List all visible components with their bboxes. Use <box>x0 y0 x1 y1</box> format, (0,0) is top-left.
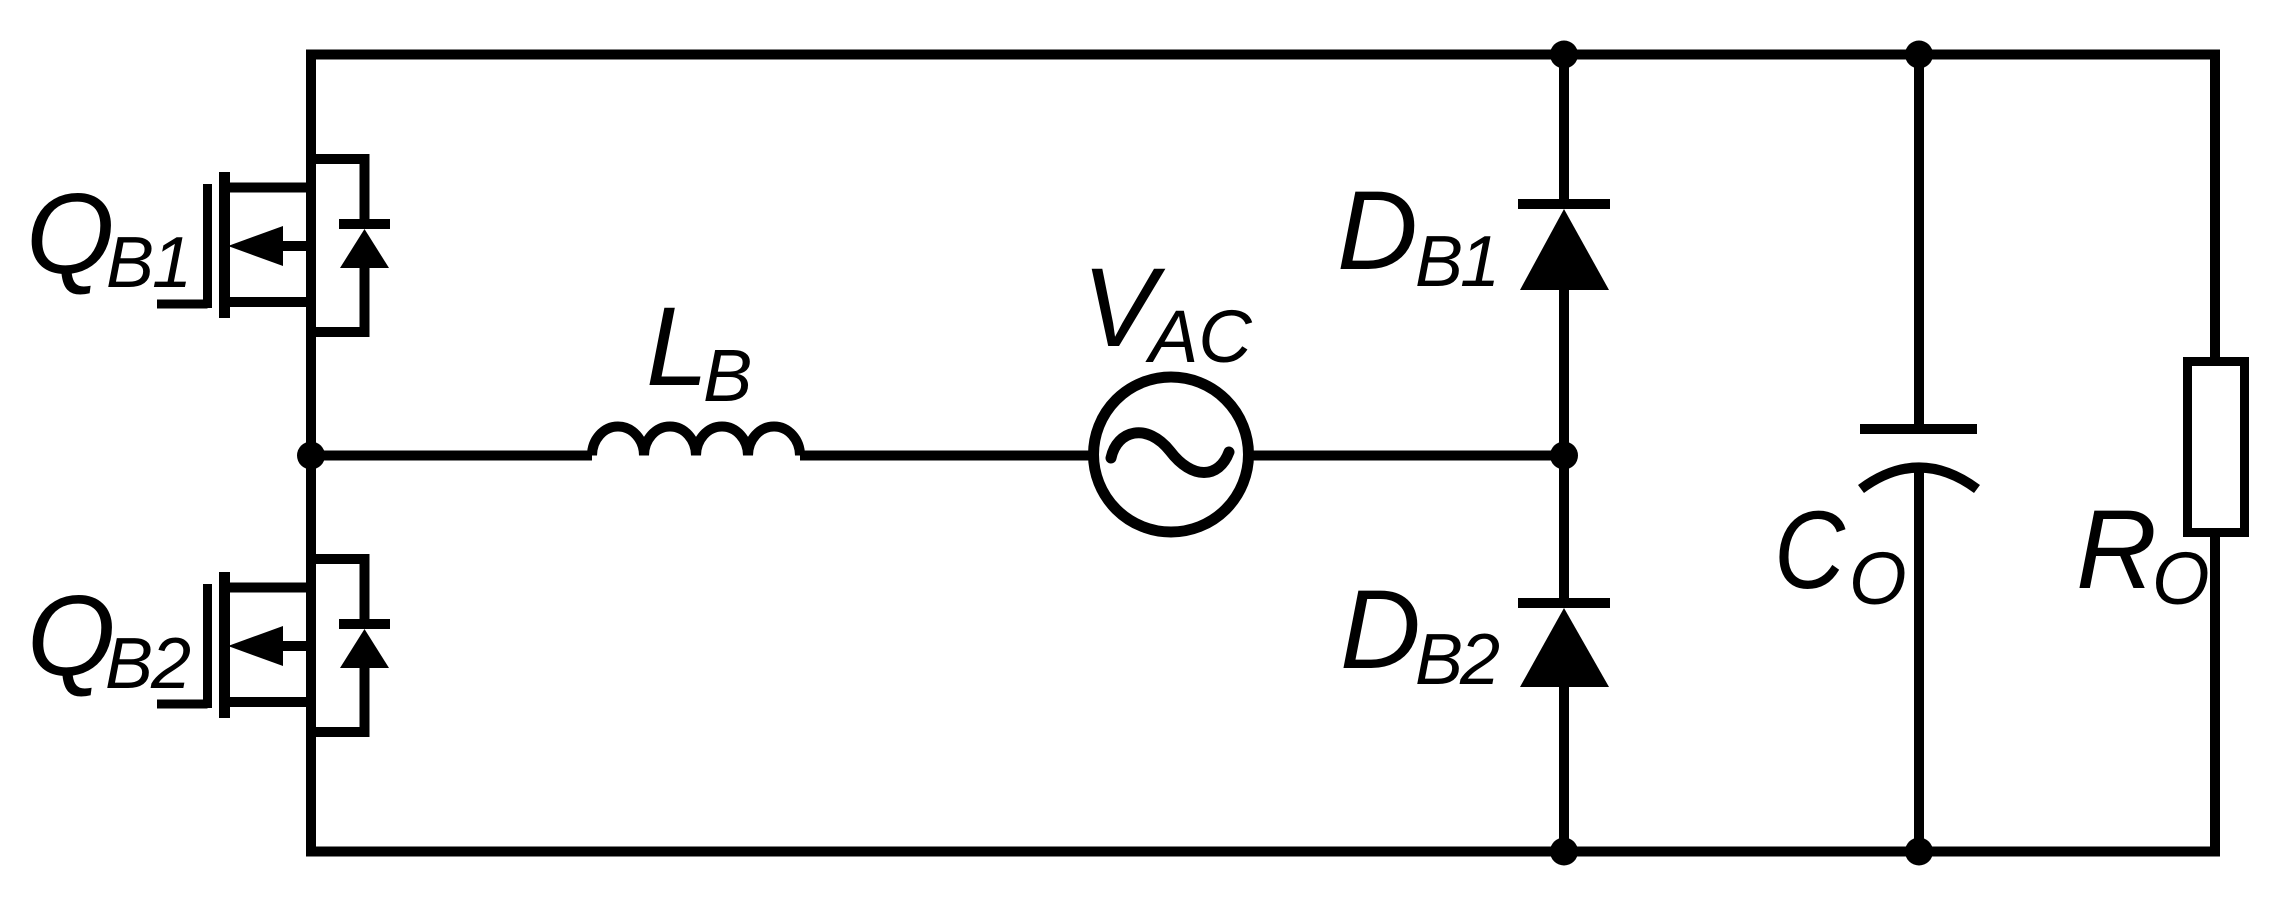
QB2 body diode anode lead <box>360 668 370 737</box>
QB2 body diode cathode bar <box>339 619 390 629</box>
wire: inductor to VAC source <box>800 451 1094 461</box>
CO curved plate <box>1861 468 1977 490</box>
svg-text:Q: Q <box>26 171 115 298</box>
node: top rail / diode leg junction <box>1550 41 1578 69</box>
label QB1 <box>26 171 192 303</box>
svg-text:O: O <box>2152 537 2210 620</box>
node: bottom rail / capacitor junction <box>1905 838 1933 866</box>
node B: diode midpoint junction <box>1550 442 1578 470</box>
svg-text:R: R <box>2076 487 2157 612</box>
wire: top rail <box>306 50 2220 60</box>
QB2 source connection <box>225 697 312 707</box>
wire: middle wire from node A to inductor <box>311 451 592 461</box>
QB1 gate bar <box>203 184 212 308</box>
svg-text:D: D <box>1340 567 1421 692</box>
svg-text:B2: B2 <box>105 624 191 704</box>
QB1 arrow <box>228 226 283 266</box>
QB1 body diode cathode lead <box>360 154 370 229</box>
inductor LB <box>592 427 800 456</box>
label VAC <box>1082 245 1252 378</box>
wire: diode leg vertical DB1 top <box>1559 55 1569 210</box>
CO bottom lead <box>1914 470 1924 852</box>
svg-text:B1: B1 <box>106 223 192 303</box>
ac source VAC <box>1094 377 1249 532</box>
QB2 body connection <box>278 641 311 651</box>
QB1 body diode top branch <box>311 154 365 164</box>
QB2 channel bar <box>219 572 230 718</box>
node: bottom rail / diode leg junction <box>1550 838 1578 866</box>
wire: right vertical (RO leg) <box>2210 50 2220 856</box>
QB1 drain connection <box>225 183 312 193</box>
QB1 body diode triangle <box>340 229 389 268</box>
QB1 source connection <box>225 297 312 307</box>
svg-text:Q: Q <box>27 573 116 700</box>
svg-text:L: L <box>646 284 708 409</box>
svg-text:O: O <box>1849 537 1907 620</box>
QB2 gate bar <box>203 584 212 708</box>
CO top plate <box>1860 424 1977 434</box>
DB2 cathode bar <box>1518 598 1610 608</box>
label QB2 <box>27 573 191 704</box>
QB1 body diode cathode bar <box>339 219 390 229</box>
label LB <box>646 284 752 417</box>
wire: bottom rail <box>306 847 2220 857</box>
transistor QB1 <box>157 154 390 337</box>
QB1 channel bar <box>219 172 230 318</box>
svg-text:D: D <box>1337 168 1418 293</box>
diode DB2 <box>1518 603 1610 687</box>
wire: VAC source to node B <box>1248 451 1564 461</box>
resistor RO <box>2188 362 2245 533</box>
QB2 arrow <box>228 626 283 666</box>
DB1 triangle <box>1520 209 1609 290</box>
DB2 triangle <box>1520 608 1609 687</box>
wire: left vertical (QB1/QB2 leg) <box>306 50 316 856</box>
QB2 gate lead <box>157 700 208 709</box>
QB2 body diode triangle <box>340 629 389 668</box>
QB1 body connection <box>278 241 311 251</box>
QB2 body diode bottom branch <box>311 727 365 737</box>
diode DB1 <box>1518 204 1610 290</box>
node: top rail / capacitor junction <box>1905 41 1933 69</box>
transistor QB2 <box>157 554 390 737</box>
QB1 body diode bottom branch <box>311 327 365 337</box>
CO top lead <box>1914 55 1924 430</box>
svg-text:AC: AC <box>1145 295 1252 378</box>
node A: left midpoint junction <box>297 442 325 470</box>
label CO <box>1774 489 1907 620</box>
svg-text:C: C <box>1774 489 1846 612</box>
wire: diode leg vertical between DB1 and DB2 <box>1559 290 1569 608</box>
QB1 body diode anode lead <box>360 268 370 337</box>
svg-text:B: B <box>703 334 752 417</box>
wire: diode leg vertical DB2 bottom <box>1559 687 1569 852</box>
QB2 body diode top branch <box>311 554 365 564</box>
DB1 cathode bar <box>1518 199 1610 209</box>
label DB2 <box>1340 567 1500 700</box>
label DB1 <box>1337 168 1500 302</box>
svg-text:B1: B1 <box>1415 222 1500 302</box>
QB1 gate lead <box>157 300 208 309</box>
QB2 drain connection <box>225 583 312 593</box>
label RO <box>2076 487 2210 620</box>
capacitor CO <box>1860 55 1977 852</box>
QB2 body diode cathode lead <box>360 554 370 629</box>
svg-text:B2: B2 <box>1415 620 1500 700</box>
